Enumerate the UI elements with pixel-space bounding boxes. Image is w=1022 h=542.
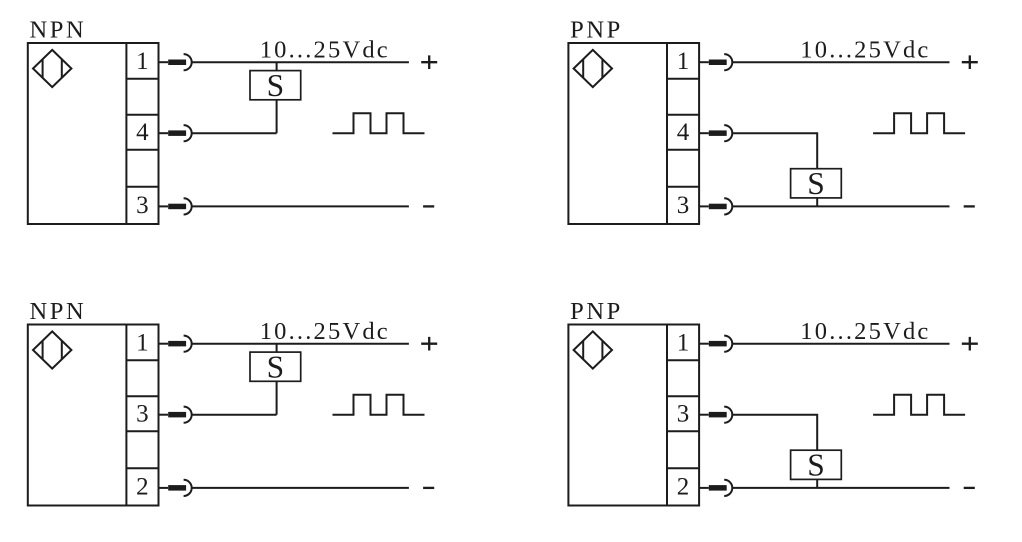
svg-text:PNP: PNP xyxy=(570,17,623,44)
wire load S to - rail PNP 1-4-3 xyxy=(816,198,818,207)
diamond right chord PNP 1-3-2 xyxy=(601,341,603,360)
pin 4 connector socket arc PNP 1-4-3 xyxy=(724,125,732,141)
terminal cell divider 1 PNP 1-3-2 xyxy=(667,359,699,361)
sensor body outline NPN 1-4-3 xyxy=(28,43,159,224)
wire pin 3 to - NPN 1-4-3 xyxy=(192,205,409,207)
sensor body outline PNP 1-3-2 xyxy=(568,325,699,506)
output square-wave symbol NPN 1-3-2 xyxy=(333,395,425,415)
wire pin 2 to - NPN 1-3-2 xyxy=(192,487,409,489)
svg-text:PNP: PNP xyxy=(570,298,623,325)
terminal cell divider 4 PNP 1-4-3 xyxy=(667,186,699,188)
svg-text:1: 1 xyxy=(677,330,690,357)
pin 1 connector socket arc NPN 1-3-2 xyxy=(184,336,192,352)
sensor body outline PNP 1-4-3 xyxy=(568,43,699,224)
pin 3 connector socket arc NPN 1-3-2 xyxy=(184,407,192,423)
pin 3 connector plug NPN 1-3-2 xyxy=(168,412,186,418)
diamond right chord PNP 1-4-3 xyxy=(601,59,603,78)
pin 1 stub wire PNP 1-3-2 xyxy=(699,343,709,345)
wire pin 1 to + PNP 1-4-3 xyxy=(732,61,949,63)
pin 3 connector plug NPN 1-4-3 xyxy=(168,204,186,210)
diamond left chord PNP 1-4-3 xyxy=(582,59,584,78)
svg-text:2: 2 xyxy=(136,474,149,501)
plus terminal NPN 1-4-3 xyxy=(421,55,437,69)
pin 1 connector plug NPN 1-3-2 xyxy=(168,341,186,347)
svg-text:S: S xyxy=(807,448,825,483)
pin 1 stub wire PNP 1-4-3 xyxy=(699,61,709,63)
pin 2 connector plug PNP 1-3-2 xyxy=(709,485,727,491)
pin 2 connector socket arc PNP 1-3-2 xyxy=(724,480,732,496)
terminal cell divider 3 PNP 1-3-2 xyxy=(667,430,699,432)
svg-text:S: S xyxy=(267,68,285,103)
terminal cell divider 3 NPN 1-3-2 xyxy=(126,430,158,432)
pin 3 connector plug PNP 1-3-2 xyxy=(709,412,727,418)
pin 4 stub wire NPN 1-4-3 xyxy=(159,132,169,134)
svg-text:1: 1 xyxy=(136,330,149,357)
pin 4 connector plug PNP 1-4-3 xyxy=(709,130,727,136)
load resistor box S PNP 1-4-3 xyxy=(791,169,842,198)
plus terminal NPN 1-3-2 xyxy=(421,337,437,351)
svg-text:4: 4 xyxy=(136,119,149,146)
wire pin 3 output NPN 1-3-2 xyxy=(192,414,277,416)
terminal cell divider 2 NPN 1-3-2 xyxy=(126,395,158,397)
pin 1 connector socket arc PNP 1-4-3 xyxy=(724,54,732,70)
wire + rail to load S NPN 1-4-3 xyxy=(276,62,278,70)
diamond right chord NPN 1-4-3 xyxy=(61,59,63,78)
sensor diamond symbol NPN 1-4-3 xyxy=(33,50,71,87)
pin 1 connector plug PNP 1-4-3 xyxy=(709,60,727,66)
svg-text:10...25Vdc: 10...25Vdc xyxy=(260,36,390,63)
load resistor box S NPN 1-3-2 xyxy=(250,352,301,381)
wire pin 4 output NPN 1-4-3 xyxy=(192,132,277,134)
terminal cell divider 4 NPN 1-3-2 xyxy=(126,467,158,469)
sensor diamond symbol PNP 1-4-3 xyxy=(574,50,612,87)
pin 1 connector plug PNP 1-3-2 xyxy=(709,341,727,347)
wire pin 1 to + NPN 1-4-3 xyxy=(192,61,409,63)
pin 2 stub wire NPN 1-3-2 xyxy=(159,487,169,489)
diamond left chord NPN 1-3-2 xyxy=(42,341,44,360)
plus terminal PNP 1-4-3 xyxy=(962,55,978,69)
output square-wave symbol NPN 1-4-3 xyxy=(333,113,425,133)
pin 3 stub wire NPN 1-4-3 xyxy=(159,205,169,207)
wire + rail to load S NPN 1-3-2 xyxy=(276,344,278,352)
diamond left chord NPN 1-4-3 xyxy=(42,59,44,78)
wire pin 3 output PNP 1-3-2 xyxy=(732,415,817,451)
pin 2 stub wire PNP 1-3-2 xyxy=(699,487,709,489)
terminal cell divider 2 NPN 1-4-3 xyxy=(126,114,158,116)
sensor diamond symbol PNP 1-3-2 xyxy=(574,331,612,368)
minus terminal PNP 1-4-3 xyxy=(964,205,975,207)
terminal cell divider 1 NPN 1-4-3 xyxy=(126,78,158,80)
pin 2 connector socket arc NPN 1-3-2 xyxy=(184,480,192,496)
terminal cell divider 2 PNP 1-4-3 xyxy=(667,114,699,116)
minus terminal NPN 1-3-2 xyxy=(423,487,434,489)
wire load S to output NPN 1-3-2 xyxy=(276,381,278,414)
terminal cell divider 4 PNP 1-3-2 xyxy=(667,467,699,469)
svg-text:NPN: NPN xyxy=(30,17,87,44)
terminal strip divider PNP 1-4-3 xyxy=(666,43,668,224)
pin 3 stub wire PNP 1-4-3 xyxy=(699,205,709,207)
pin 2 connector plug NPN 1-3-2 xyxy=(168,485,186,491)
wire pin 2 to - PNP 1-3-2 xyxy=(732,487,949,489)
pin 3 connector plug PNP 1-4-3 xyxy=(709,204,727,210)
svg-text:2: 2 xyxy=(677,474,690,501)
terminal strip divider NPN 1-4-3 xyxy=(125,43,127,224)
terminal strip divider NPN 1-3-2 xyxy=(125,325,127,506)
pin 3 stub wire NPN 1-3-2 xyxy=(159,414,169,416)
sensor diamond symbol NPN 1-3-2 xyxy=(33,331,71,368)
load resistor box S NPN 1-4-3 xyxy=(250,71,301,100)
terminal cell divider 2 PNP 1-3-2 xyxy=(667,395,699,397)
svg-text:NPN: NPN xyxy=(30,298,87,325)
terminal strip divider PNP 1-3-2 xyxy=(666,325,668,506)
svg-text:10...25Vdc: 10...25Vdc xyxy=(800,36,930,63)
minus terminal PNP 1-3-2 xyxy=(964,487,975,489)
svg-text:3: 3 xyxy=(136,192,149,219)
terminal cell divider 1 NPN 1-3-2 xyxy=(126,359,158,361)
pin 1 connector socket arc PNP 1-3-2 xyxy=(724,336,732,352)
wire pin 4 output PNP 1-4-3 xyxy=(732,133,817,169)
wire pin 3 to - PNP 1-4-3 xyxy=(732,205,949,207)
pin 3 stub wire PNP 1-3-2 xyxy=(699,414,709,416)
svg-text:1: 1 xyxy=(677,48,690,75)
pin 4 connector socket arc NPN 1-4-3 xyxy=(184,125,192,141)
svg-text:3: 3 xyxy=(677,192,690,219)
svg-text:3: 3 xyxy=(677,401,690,428)
minus terminal NPN 1-4-3 xyxy=(423,205,434,207)
pin 4 stub wire PNP 1-4-3 xyxy=(699,132,709,134)
plus terminal PNP 1-3-2 xyxy=(962,337,978,351)
svg-text:S: S xyxy=(807,166,825,201)
wire load S to output NPN 1-4-3 xyxy=(276,100,278,133)
pin 1 stub wire NPN 1-3-2 xyxy=(159,343,169,345)
svg-text:10...25Vdc: 10...25Vdc xyxy=(800,318,930,345)
svg-text:4: 4 xyxy=(677,119,690,146)
diamond left chord PNP 1-3-2 xyxy=(582,341,584,360)
svg-text:S: S xyxy=(267,349,285,384)
pin 1 stub wire NPN 1-4-3 xyxy=(159,61,169,63)
terminal cell divider 3 PNP 1-4-3 xyxy=(667,149,699,151)
pin 3 connector socket arc PNP 1-4-3 xyxy=(724,198,732,214)
svg-text:1: 1 xyxy=(136,48,149,75)
pin 1 connector plug NPN 1-4-3 xyxy=(168,60,186,66)
diamond right chord NPN 1-3-2 xyxy=(61,341,63,360)
terminal cell divider 1 PNP 1-4-3 xyxy=(667,78,699,80)
wire load S to - rail PNP 1-3-2 xyxy=(816,479,818,488)
pin 3 connector socket arc NPN 1-4-3 xyxy=(184,198,192,214)
output square-wave symbol PNP 1-3-2 xyxy=(873,395,965,415)
pin 3 connector socket arc PNP 1-3-2 xyxy=(724,407,732,423)
sensor body outline NPN 1-3-2 xyxy=(28,325,159,506)
load resistor box S PNP 1-3-2 xyxy=(791,450,842,479)
terminal cell divider 4 NPN 1-4-3 xyxy=(126,186,158,188)
pin 4 connector plug NPN 1-4-3 xyxy=(168,130,186,136)
svg-text:3: 3 xyxy=(136,401,149,428)
svg-text:10...25Vdc: 10...25Vdc xyxy=(260,318,390,345)
output square-wave symbol PNP 1-4-3 xyxy=(873,113,965,133)
pin 1 connector socket arc NPN 1-4-3 xyxy=(184,54,192,70)
terminal cell divider 3 NPN 1-4-3 xyxy=(126,149,158,151)
wire pin 1 to + NPN 1-3-2 xyxy=(192,343,409,345)
wire pin 1 to + PNP 1-3-2 xyxy=(732,343,949,345)
